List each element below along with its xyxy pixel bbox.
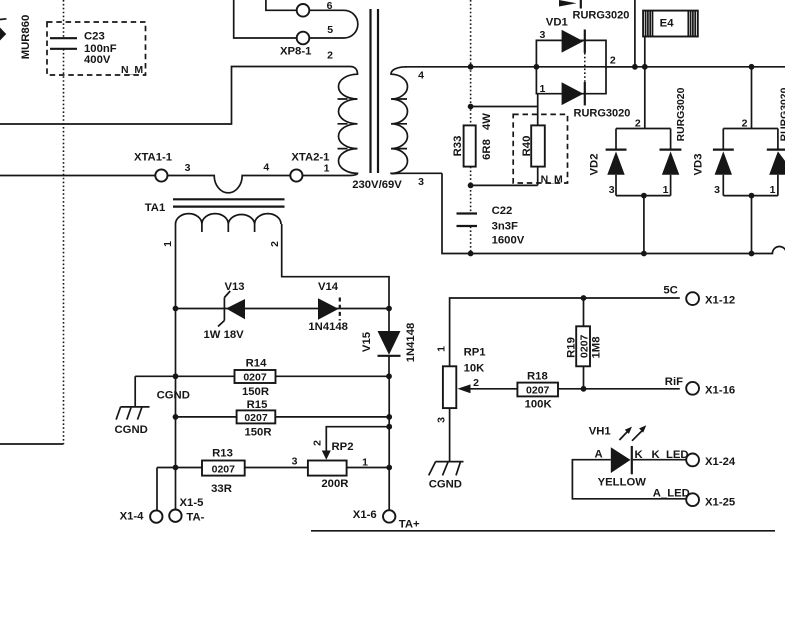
wire: RIF row: [558, 388, 680, 390]
wire: bottom separator line: [311, 530, 775, 532]
terminal XTA1-1: [134, 152, 172, 182]
connector label XP8-1: [280, 46, 311, 58]
pin 3 label: [185, 162, 191, 174]
transformer TA1 core: [173, 199, 285, 206]
net label 5C: [663, 284, 677, 296]
diode V14: [318, 298, 340, 321]
value label C23 100nF 400V: [84, 31, 117, 67]
reference label R40: [521, 136, 533, 157]
svg-text:R14: R14: [246, 358, 267, 370]
svg-text:XTA1-1: XTA1-1: [134, 152, 172, 164]
value label RURG3020 (VD2): [676, 87, 687, 141]
svg-text:1M8: 1M8: [591, 337, 603, 359]
wire: VD2 bottom to rail: [641, 193, 647, 254]
reference label R15: [247, 399, 268, 411]
svg-text:K_LED: K_LED: [652, 449, 689, 461]
reference label RP2: [332, 441, 354, 453]
pin 3 label RP1: [436, 417, 448, 423]
net label RIF: [665, 376, 683, 388]
value label 1M8: [591, 337, 603, 359]
reference label V13: [224, 281, 244, 293]
svg-text:CGND: CGND: [157, 390, 190, 402]
wire: 5C row: [450, 298, 680, 366]
wire: TA1 pin2 over to V15 branch: [282, 224, 389, 309]
resistor R40: [531, 125, 545, 166]
terminal XP8-1 pin 6: [297, 0, 333, 17]
resistor R15: [237, 410, 276, 424]
pin 1 label TA1: [162, 241, 174, 247]
reference label VD2: [589, 154, 601, 176]
reference label RP1: [464, 346, 486, 358]
svg-text:10K: 10K: [464, 363, 486, 375]
svg-text:VD1: VD1: [546, 17, 568, 29]
svg-text:2: 2: [312, 440, 324, 446]
value label 33R: [211, 483, 232, 495]
svg-text:0207: 0207: [212, 464, 236, 476]
transformer T core: [371, 9, 379, 173]
wiper arrow RP2: [322, 451, 331, 460]
svg-text:3: 3: [292, 456, 298, 468]
svg-text:CGND: CGND: [429, 479, 462, 491]
wire: LED anode loop to X1-25: [572, 460, 686, 499]
svg-text:A: A: [595, 449, 603, 461]
svg-text:R15: R15: [247, 399, 268, 411]
svg-text:3: 3: [714, 184, 720, 196]
svg-text:0207: 0207: [526, 385, 550, 397]
ground CGND (RP1): [429, 462, 464, 476]
zener diode V13: [218, 291, 245, 327]
svg-text:RP1: RP1: [464, 346, 486, 358]
wire: elbow to left edge at y=444: [0, 443, 64, 445]
svg-text:100K: 100K: [525, 399, 553, 411]
wire: connector XP8-1 pin 6 stub: [266, 0, 297, 10]
terminal X1-12: [686, 292, 735, 306]
wire: VD3 pin 2 vertical: [751, 67, 753, 129]
svg-text:N_M: N_M: [121, 64, 143, 76]
svg-text:X1-4: X1-4: [120, 511, 145, 523]
pin 3 label VD3: [714, 184, 720, 196]
wire: from left edge y=124 up to transformer primary pin 2: [0, 67, 350, 125]
value label 6R8: [481, 139, 493, 160]
node: dot at R19 top: [581, 295, 587, 301]
svg-text:X1-24: X1-24: [705, 456, 736, 468]
svg-text:C22: C22: [492, 205, 513, 217]
svg-text:3: 3: [539, 29, 545, 41]
reference label V15: [361, 332, 373, 352]
wire: RP1 pin 3 to ground: [449, 408, 451, 462]
pin 1 label (transformer primary bottom): [324, 163, 330, 175]
label N_M: [121, 64, 143, 76]
svg-text:RURG3020: RURG3020: [780, 87, 785, 141]
svg-text:0207: 0207: [243, 372, 267, 384]
pin 3 label VD1: [539, 29, 545, 41]
svg-text:TA1: TA1: [145, 202, 166, 214]
value label 10K: [464, 363, 486, 375]
svg-text:4W: 4W: [481, 113, 493, 130]
net label K_LED: [652, 449, 689, 461]
reference label TA1: [145, 202, 166, 214]
svg-text:MUR860: MUR860: [20, 15, 32, 60]
svg-text:A_LED: A_LED: [653, 488, 690, 500]
svg-text:2: 2: [473, 377, 479, 389]
wire: right vertical bus x=389.2: [388, 376, 390, 510]
pin 2 label RP2: [312, 440, 324, 446]
svg-text:1: 1: [770, 184, 776, 196]
node: dot at RP2 tap: [386, 424, 392, 430]
potentiometer RP2: [308, 461, 347, 476]
reference label V14: [318, 281, 339, 293]
wire: R14 row with CGND stub: [135, 375, 389, 377]
pin 2 label (transformer primary top): [327, 50, 333, 62]
dashed link between VD1 cathode bars: [584, 53, 586, 82]
svg-text:RURG3020: RURG3020: [574, 108, 631, 120]
svg-text:RURG3020: RURG3020: [676, 87, 687, 141]
wire: V13/V14 row: [176, 308, 390, 310]
LED VH1: [611, 446, 632, 474]
svg-text:1: 1: [539, 83, 545, 95]
pin 2 label VD1: [610, 55, 616, 67]
capacitor C22: [457, 214, 478, 227]
value label 1N4148 (V14): [308, 321, 348, 333]
net label CGND (symbol): [115, 424, 148, 436]
transformer TA1 winding: [176, 214, 282, 232]
wire: E4 lead down through main row to VD2 pin 2: [644, 37, 646, 129]
value label 150R (R15): [244, 427, 271, 439]
svg-text:X1-6: X1-6: [353, 509, 377, 521]
value label 100K: [525, 399, 553, 411]
svg-text:1: 1: [663, 184, 669, 196]
pin 1 label RP2: [362, 457, 368, 469]
wire: R40 top connection: [471, 94, 538, 126]
svg-text:2: 2: [269, 241, 281, 247]
pin 4 label (secondary top): [418, 69, 424, 81]
svg-text:RiF: RiF: [665, 376, 683, 388]
value label YELLOW: [598, 477, 647, 489]
node: junction dots on main row: [468, 64, 755, 70]
wire: R19 leads: [583, 298, 585, 389]
diode VD1 bottom half: [562, 82, 585, 105]
svg-text:2: 2: [327, 50, 333, 62]
label N_M (R40 box): [541, 174, 563, 186]
pin 1 label VD1: [539, 83, 545, 95]
svg-text:TA+: TA+: [399, 519, 420, 531]
resistor R14: [235, 370, 276, 384]
resistor R13: [202, 461, 245, 476]
wire: long vertical net at x=63.5: [63, 0, 65, 444]
svg-text:400V: 400V: [84, 54, 111, 66]
pin 2 label VD2: [635, 118, 641, 130]
reference label R14: [246, 358, 267, 370]
wire: to X1-4: [156, 468, 158, 511]
dashed optional box around C23 (N_M): [47, 22, 146, 75]
node: dots on R15 row: [173, 414, 393, 420]
reference label VD3: [693, 154, 705, 176]
svg-text:E4: E4: [660, 18, 675, 30]
svg-text:2: 2: [610, 55, 616, 67]
terminal X1-6: [353, 509, 420, 531]
LED emission arrows: [619, 425, 646, 441]
wire: secondary pin3 drop and bottom rail: [442, 173, 785, 253]
terminal XP8-1 pin 5: [297, 24, 334, 44]
value label 1W 18V: [204, 329, 245, 341]
svg-text:R33: R33: [452, 136, 464, 157]
pin 3 label RP2: [292, 456, 298, 468]
svg-text:0207: 0207: [579, 334, 591, 358]
reference label VD1: [546, 17, 568, 29]
capacitor C23: [50, 38, 77, 49]
svg-text:X1-25: X1-25: [705, 497, 735, 509]
wire: LED cathode to X1-24: [633, 459, 687, 461]
wire: VD1 pin 2 to node: [606, 66, 635, 68]
dashed optional box around R40: [513, 114, 567, 183]
svg-text:150R: 150R: [244, 427, 271, 439]
svg-text:X1-16: X1-16: [705, 385, 735, 397]
dual diode module VD3: [713, 129, 785, 196]
svg-text:200R: 200R: [321, 478, 348, 490]
svg-text:R18: R18: [527, 371, 548, 383]
pin 2 label RP1: [473, 377, 479, 389]
svg-text:YELLOW: YELLOW: [598, 477, 647, 489]
node: dot on R13 row: [173, 465, 393, 471]
svg-text:5C: 5C: [663, 284, 677, 296]
svg-text:1N4148: 1N4148: [405, 323, 417, 363]
value label C22 3n3F 1600V: [492, 205, 525, 247]
wire: vertical from top edge to main row at x=634.9: [634, 0, 636, 67]
value label RURG3020 (below VD1): [574, 108, 631, 120]
svg-text:R13: R13: [212, 448, 233, 460]
value label RURG3020 (VD3, clipped): [780, 87, 785, 141]
pin 1 label RP1: [436, 346, 448, 352]
wire: R13 row: [157, 467, 389, 469]
inductor E4: [643, 11, 698, 37]
transformer T primary winding: [303, 67, 358, 176]
svg-text:RURG3020: RURG3020: [573, 10, 630, 22]
pin label A: [595, 449, 603, 461]
dual diode module VD2: [606, 129, 682, 196]
svg-text:TA-: TA-: [186, 512, 204, 524]
resistor R33: [464, 125, 476, 166]
value label RURG3020 (top): [573, 10, 630, 22]
value label 150R (R14): [242, 386, 269, 398]
wire: main HV row y=66.8: [405, 66, 785, 68]
svg-text:4: 4: [263, 162, 269, 174]
terminal X1-4: [120, 510, 163, 522]
terminal X1-25: [686, 493, 735, 508]
diode fragment MUR860 (clipped at left edge): [0, 19, 7, 41]
terminal X1-24: [686, 454, 736, 469]
terminal XTA2-1: [290, 152, 329, 182]
svg-text:N_M: N_M: [541, 174, 563, 186]
pin 3 label VD2: [609, 184, 615, 196]
pin label K: [635, 449, 644, 461]
value label 200R: [321, 478, 348, 490]
wire: connector XP8-1 pin 5 stub: [234, 0, 297, 38]
net label CGND (row): [157, 390, 190, 402]
diode fragment above VD1 (clipped at top edge): [559, 0, 581, 9]
svg-text:0207: 0207: [244, 412, 268, 424]
svg-text:3: 3: [418, 176, 424, 188]
node: dot at snubber top tap: [468, 104, 474, 110]
node: dot at R19 bottom: [581, 386, 587, 392]
svg-text:R19: R19: [566, 337, 578, 358]
node: dots on bottom rail: [468, 251, 755, 257]
svg-text:1N4148: 1N4148: [308, 321, 348, 333]
node: dots on R14 row: [173, 373, 392, 379]
reference label R19: [566, 337, 578, 358]
svg-text:3n3F: 3n3F: [492, 220, 518, 232]
wire: dotted snubber net x=470.6: [470, 0, 472, 254]
svg-text:5: 5: [327, 24, 333, 36]
value label MUR860: [20, 15, 32, 60]
svg-text:XP8-1: XP8-1: [280, 46, 311, 58]
svg-text:150R: 150R: [242, 386, 269, 398]
svg-text:V13: V13: [224, 281, 244, 293]
reference label R18: [527, 371, 548, 383]
reference label R33: [452, 136, 464, 157]
diode V15: [378, 309, 401, 377]
pin 2 label TA1: [269, 241, 281, 247]
transformer T secondary winding: [391, 67, 442, 174]
svg-text:3: 3: [609, 184, 615, 196]
svg-text:4: 4: [418, 69, 424, 81]
svg-text:3: 3: [185, 162, 191, 174]
svg-text:X1-12: X1-12: [705, 295, 735, 307]
svg-text:VD2: VD2: [589, 154, 601, 176]
node: dot at R33 bottom: [468, 183, 474, 189]
svg-text:C23: C23: [84, 31, 105, 43]
wire: R15 row: [176, 416, 390, 418]
net label CGND (RP1): [429, 479, 462, 491]
wiper arrow RP1 and wire to R18: [458, 384, 518, 393]
svg-text:1: 1: [162, 241, 174, 247]
svg-text:1: 1: [436, 346, 448, 352]
svg-text:V14: V14: [318, 281, 339, 293]
svg-text:1W 18V: 1W 18V: [204, 329, 245, 341]
pin 4 label: [263, 162, 269, 174]
value label 4W: [481, 113, 493, 130]
svg-text:X1-5: X1-5: [180, 497, 204, 509]
net label A_LED: [653, 488, 690, 500]
resistor R18: [517, 383, 558, 397]
svg-text:33R: 33R: [211, 483, 232, 495]
svg-text:1600V: 1600V: [492, 235, 525, 247]
wire: VD3 bottom to rail: [749, 193, 755, 254]
wire: R33/R40 bottom tie: [471, 167, 538, 186]
svg-text:VH1: VH1: [589, 426, 611, 438]
value label 230V/69V: [352, 179, 402, 191]
svg-text:230V/69V: 230V/69V: [352, 179, 402, 191]
ground CGND (left): [116, 376, 149, 419]
reference label VH1: [589, 426, 611, 438]
pin 1 label VD2: [663, 184, 669, 196]
potentiometer RP1: [443, 366, 456, 408]
svg-text:R40: R40: [521, 136, 533, 157]
svg-text:VD3: VD3: [693, 154, 705, 176]
node: dots on V13 row: [173, 306, 392, 312]
diode VD1 top half: [562, 30, 585, 53]
dual diode module VD1 outline: [536, 40, 606, 93]
svg-text:CGND: CGND: [115, 424, 148, 436]
svg-text:RP2: RP2: [332, 441, 354, 453]
svg-text:3: 3: [436, 417, 448, 423]
wire: jumper loop between pins 6 and 5: [309, 10, 358, 38]
pin 2 label VD3: [742, 118, 748, 130]
value label 1N4148 (V15): [405, 323, 417, 363]
resistor R19: [576, 326, 590, 366]
wire: RP2 wiper tap: [326, 427, 389, 452]
wire: XTA row from left edge to XTA1-1: [0, 175, 155, 177]
svg-text:6R8: 6R8: [481, 139, 493, 160]
svg-text:1: 1: [324, 163, 330, 175]
pin 1 label VD3: [770, 184, 776, 196]
wire: TA1 pin1 left vertical bus: [175, 224, 177, 510]
terminal X1-5: [169, 497, 204, 524]
wire with sense loop between XTA1-1 and XTA2-1: [168, 176, 291, 193]
svg-text:V15: V15: [361, 332, 373, 352]
reference label R13: [212, 448, 233, 460]
terminal X1-16: [686, 382, 735, 397]
pin 3 label (secondary bottom): [418, 176, 424, 188]
